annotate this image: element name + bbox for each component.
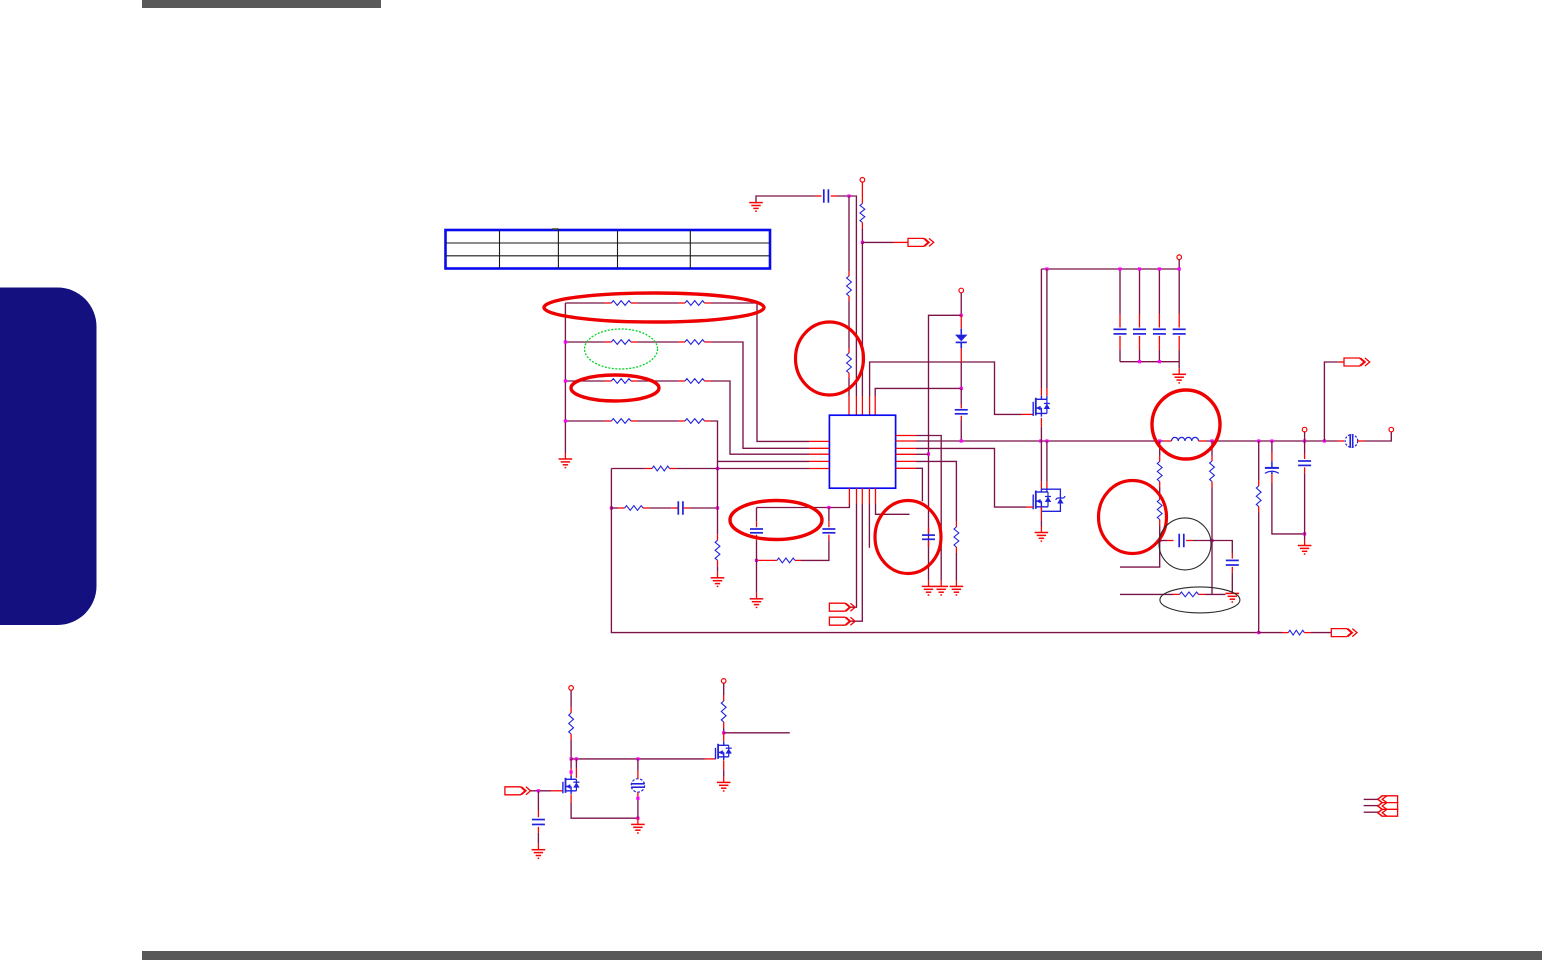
node junction bbox=[847, 194, 850, 197]
wire red stub bbox=[564, 453, 566, 459]
transistor M3 bbox=[716, 742, 732, 760]
wire R28 down bbox=[723, 722, 725, 733]
diode D1 bbox=[955, 329, 968, 349]
wire IC pin R1 to gnd bbox=[896, 436, 942, 587]
resistor R19 bbox=[625, 506, 643, 511]
highlight ellipse red E1 bbox=[544, 293, 764, 322]
wire from T1 bbox=[861, 182, 863, 203]
wire cap col2 lower bbox=[801, 535, 829, 561]
wire cap column 3 bbox=[1158, 269, 1160, 328]
resistor R20 bbox=[715, 540, 720, 560]
node junction bbox=[1045, 439, 1048, 442]
wire damp row left bbox=[1120, 593, 1180, 595]
wire row3 to IC bbox=[705, 381, 830, 454]
terminal T3 bbox=[1177, 255, 1182, 260]
wire red stub bbox=[831, 195, 837, 197]
wire M2 diode drop bbox=[1046, 441, 1048, 482]
wire cap column lower bbox=[1158, 336, 1160, 362]
inductor L1 bbox=[1172, 437, 1199, 441]
port P3 bbox=[1331, 629, 1357, 637]
node junction bbox=[716, 506, 719, 509]
wire to port bbox=[862, 241, 908, 243]
wire row2 mid bbox=[631, 341, 685, 343]
node junction bbox=[1158, 439, 1161, 442]
node junction bbox=[861, 241, 864, 244]
ground GND10 bbox=[934, 586, 948, 595]
wire bus vertical bbox=[564, 303, 566, 453]
wire junction down bbox=[1211, 541, 1213, 595]
wire row3 left bbox=[565, 380, 611, 382]
wire cap column 4 bbox=[1178, 269, 1180, 328]
wire port stub bbox=[1364, 798, 1378, 800]
revision table bbox=[446, 229, 771, 269]
wire I1 top bbox=[637, 759, 639, 779]
wire to left riser bbox=[929, 315, 962, 580]
ground GND12 bbox=[1172, 374, 1186, 383]
wire C17 upper bbox=[1271, 441, 1273, 462]
capacitor C1 bbox=[824, 189, 829, 203]
node junction bbox=[564, 340, 567, 343]
ground GND8 bbox=[1035, 533, 1049, 542]
wire L1 right down bbox=[1211, 441, 1213, 461]
wire M1 source to rail bbox=[1040, 418, 1042, 441]
highlight circle red E8 bbox=[1099, 481, 1167, 554]
terminal T7 bbox=[721, 679, 726, 684]
wire RC right bbox=[684, 507, 718, 509]
wire cap col1 lower bbox=[756, 535, 758, 561]
wire D1 to junction bbox=[960, 348, 962, 388]
wire cap col1 bbox=[756, 508, 758, 528]
filter FB1 bbox=[1345, 434, 1358, 448]
node junction bbox=[564, 379, 567, 382]
left navy side tab bbox=[0, 288, 97, 626]
resistor R10 bbox=[611, 301, 631, 306]
port P2 bbox=[1344, 358, 1370, 366]
port P1 output bbox=[908, 238, 934, 246]
bottom footer bar bbox=[142, 951, 1542, 960]
terminal T4 bbox=[1302, 427, 1307, 432]
resistor R16 bbox=[611, 419, 631, 424]
resistor R25 bbox=[1180, 592, 1199, 597]
wire M4 diode lead bbox=[575, 759, 577, 778]
wire I1 bottom bbox=[637, 792, 639, 818]
wire M3 drain branch bbox=[724, 732, 790, 734]
capacitor C10 bbox=[1114, 329, 1127, 334]
resistor R15 bbox=[685, 379, 705, 384]
node junction bbox=[755, 559, 758, 562]
wire row5 to IC bbox=[670, 468, 830, 470]
terminal T1 bbox=[860, 178, 865, 183]
wire IC top pin2 riser bbox=[855, 196, 858, 415]
capacitor C9 bbox=[678, 501, 683, 515]
resistor R4 bbox=[954, 527, 959, 547]
wire row1 mid bbox=[631, 302, 685, 304]
wire red stub bbox=[1046, 388, 1048, 396]
terminal T2 bbox=[959, 288, 964, 293]
resistor R13 bbox=[685, 340, 705, 345]
wire bus lower bbox=[1120, 361, 1179, 363]
highlight circle red E4 bbox=[796, 322, 864, 395]
wire C18 lower bbox=[1304, 467, 1306, 545]
wire IC pin B1 feedback bbox=[757, 488, 850, 507]
wire to port P2 bbox=[1324, 362, 1344, 441]
wire IC pin R3 to M2 gate bbox=[896, 448, 1034, 507]
node junction bbox=[1158, 360, 1161, 363]
node junction bbox=[575, 757, 578, 760]
node junction bbox=[537, 789, 540, 792]
wire IC top pin4 to M1 gate bbox=[870, 362, 1034, 415]
wire row5 left bbox=[611, 468, 652, 470]
wire to R21 bbox=[1259, 632, 1289, 634]
node junction bbox=[927, 452, 930, 455]
node junction bbox=[1210, 539, 1213, 542]
wire R26 upper bbox=[1258, 441, 1260, 486]
wire red stub bbox=[1231, 553, 1233, 559]
wire M3 source bbox=[723, 760, 725, 782]
resistor R21 bbox=[1288, 630, 1304, 635]
source I1 bbox=[631, 779, 644, 792]
node junction bbox=[1045, 267, 1048, 270]
wire between bbox=[1159, 482, 1161, 500]
wire to junction bbox=[837, 195, 856, 197]
wire to junction bbox=[1159, 520, 1161, 541]
node junction bbox=[716, 467, 719, 470]
port P6 bbox=[505, 787, 531, 795]
wire cap col2 bbox=[828, 508, 830, 528]
wire snub right bbox=[1186, 540, 1212, 542]
ground GND9 bbox=[922, 586, 936, 595]
wire L1 left down bbox=[1159, 441, 1161, 462]
wire red stub bbox=[1040, 482, 1042, 489]
wire into IC pin bbox=[848, 373, 850, 415]
capacitor C7 bbox=[750, 529, 763, 533]
wire R26 lower bbox=[1258, 507, 1260, 633]
capacitor C19 bbox=[532, 820, 545, 825]
wire to GND5 bbox=[537, 827, 539, 850]
wire to junction bbox=[1211, 482, 1213, 541]
wire red stub bbox=[1164, 440, 1172, 442]
node junction bbox=[960, 314, 963, 317]
resistor R12 bbox=[611, 340, 631, 345]
resistor R27 bbox=[569, 713, 574, 734]
node junction bbox=[960, 387, 963, 390]
capacitor C15 bbox=[1179, 534, 1184, 548]
resistor R28 bbox=[721, 701, 726, 722]
wire red stub bbox=[928, 541, 930, 547]
ground GND7 bbox=[717, 782, 731, 791]
transistor M2 bbox=[1033, 489, 1065, 512]
wire to GND3 bbox=[717, 560, 719, 578]
ground GND5 bbox=[532, 850, 546, 859]
node junction bbox=[1178, 267, 1181, 270]
highlight ellipse green E2 bbox=[585, 329, 658, 369]
wire red stub bbox=[928, 580, 930, 586]
wire red stub bbox=[928, 528, 930, 534]
ground GND1 bbox=[749, 203, 763, 212]
wire row3 mid bbox=[631, 380, 685, 382]
wire L-branch bbox=[1120, 541, 1160, 568]
wire T4 down bbox=[1304, 432, 1306, 441]
highlight ellipse red E5 bbox=[730, 501, 822, 540]
wire IC top pin3 riser bbox=[861, 242, 863, 415]
transistor M4 bbox=[563, 776, 580, 794]
wire C18 upper bbox=[1304, 441, 1306, 459]
wire main rail right bbox=[1206, 440, 1344, 442]
resistor R22 bbox=[1157, 462, 1162, 482]
wire main rail left bbox=[896, 440, 1164, 442]
wire red stub bbox=[960, 315, 962, 328]
wire red stub bbox=[1040, 388, 1042, 396]
resistor R24 bbox=[1210, 461, 1215, 482]
wire row4 left bbox=[565, 420, 611, 422]
wire port stub bbox=[1364, 811, 1378, 813]
wire RC mid bbox=[643, 507, 678, 509]
highlight circle red E6 bbox=[875, 501, 941, 574]
resistor R3 bbox=[860, 204, 865, 223]
capacitor C8 bbox=[822, 529, 835, 533]
wire M1 diode riser bbox=[1046, 269, 1048, 388]
wire T2 down bbox=[960, 293, 962, 315]
wire cap column lower bbox=[1178, 336, 1180, 362]
wire red stub bbox=[1046, 482, 1048, 489]
wire IC top pin5 to diode node bbox=[875, 388, 961, 415]
IC U1 bbox=[829, 415, 895, 488]
wire P6 to gate bbox=[531, 790, 563, 792]
wire IC pin B5 stub bbox=[876, 488, 910, 514]
highlight ellipse red E3 bbox=[571, 375, 659, 401]
wire IC pin R6 stub bbox=[896, 468, 923, 501]
wire M1 drain riser bbox=[1040, 269, 1042, 388]
wire red stub bbox=[795, 559, 801, 561]
highlight circle red E7 bbox=[1152, 390, 1220, 459]
wire row2 to IC bbox=[705, 342, 830, 448]
node junction bbox=[564, 419, 567, 422]
node junction bbox=[1303, 532, 1306, 535]
wire between R1 R2 bbox=[848, 296, 850, 353]
wire R3 to junction bbox=[861, 223, 863, 243]
wire row4 to IC bbox=[705, 421, 830, 461]
wire IC pin B3 bbox=[850, 488, 862, 621]
port P4 bbox=[829, 603, 855, 611]
wire to port P3 bbox=[1304, 632, 1331, 634]
capacitor C5 bbox=[955, 410, 968, 414]
node junction bbox=[1118, 267, 1121, 270]
wire red stub bbox=[815, 195, 822, 197]
wire to C5 bbox=[960, 388, 962, 408]
wire M4 drain bbox=[570, 759, 572, 778]
node junction bbox=[570, 771, 573, 774]
node junction bbox=[1158, 267, 1161, 270]
node junction bbox=[610, 506, 613, 509]
wire row1 to IC bbox=[705, 303, 830, 441]
capacitor C16 bbox=[1226, 560, 1239, 565]
node junction bbox=[1257, 439, 1260, 442]
wire cap column lower bbox=[1119, 336, 1121, 362]
port P5 bbox=[829, 617, 855, 625]
wire M4 source bbox=[571, 794, 638, 818]
terminal T6 bbox=[569, 686, 574, 691]
wire red stub bbox=[637, 818, 639, 824]
wire IC pin B4 stub bbox=[868, 488, 870, 548]
wire cap drop bbox=[537, 791, 539, 817]
wire left frame bbox=[611, 469, 1258, 633]
terminal T5 bbox=[1389, 427, 1394, 432]
node junction bbox=[1257, 631, 1260, 634]
transistor M1 bbox=[1033, 396, 1050, 417]
highlight ellipse black E10 bbox=[1160, 587, 1240, 613]
port P7 triple bbox=[1378, 796, 1398, 816]
node junction bbox=[827, 506, 830, 509]
wire row1 left bbox=[565, 302, 611, 304]
ground GND13 bbox=[1298, 546, 1312, 555]
node junction bbox=[1270, 439, 1273, 442]
resistor R11 bbox=[685, 301, 705, 306]
capacitor C11 bbox=[1133, 329, 1146, 334]
wire red stub bbox=[1199, 440, 1207, 442]
wire snub left bbox=[1160, 540, 1174, 542]
node junction bbox=[636, 797, 639, 800]
ground GND6 bbox=[631, 824, 645, 833]
node junction bbox=[636, 817, 639, 820]
node junction bbox=[1039, 439, 1042, 442]
wire RC left bbox=[611, 507, 624, 509]
capacitor C12 bbox=[1153, 329, 1166, 334]
top header bar bbox=[142, 0, 381, 8]
node junction bbox=[570, 757, 573, 760]
wire port stub bbox=[1364, 805, 1378, 807]
node junction bbox=[1138, 267, 1141, 270]
wire row4 mid bbox=[631, 420, 685, 422]
node junction bbox=[960, 439, 963, 442]
resistor R14 bbox=[611, 379, 631, 384]
ground GND14 bbox=[1226, 593, 1240, 602]
wire T3 down bbox=[1178, 260, 1180, 269]
wire damp row right bbox=[1199, 593, 1226, 595]
wire IC pin R5 bbox=[896, 461, 957, 527]
wire M2 source bbox=[1040, 507, 1042, 533]
node junction bbox=[1138, 360, 1141, 363]
node junction bbox=[1158, 539, 1161, 542]
wire C5 to main rail bbox=[960, 416, 962, 441]
ground GND2 bbox=[559, 459, 573, 468]
wire M2 drain drop bbox=[1040, 441, 1042, 482]
wire gate row bbox=[571, 758, 716, 760]
ground GND11 bbox=[950, 586, 964, 595]
node junction bbox=[722, 731, 725, 734]
capacitor C18 bbox=[1298, 461, 1311, 465]
wire to GND4 bbox=[756, 560, 758, 598]
wire R4 to gnd bbox=[955, 547, 957, 586]
resistor R2 bbox=[847, 353, 852, 373]
resistor R23 bbox=[1157, 500, 1162, 520]
wire IC top pin1 riser bbox=[848, 196, 850, 276]
wire cap column 1 bbox=[1119, 269, 1121, 328]
node junction bbox=[636, 757, 639, 760]
resistor R1 bbox=[847, 276, 852, 296]
wire cap column lower bbox=[1139, 336, 1141, 362]
resistor R17 bbox=[685, 419, 705, 424]
resistor R18 bbox=[652, 466, 670, 471]
wire cap column 2 bbox=[1139, 269, 1141, 328]
node junction bbox=[1323, 439, 1326, 442]
node junction bbox=[1210, 439, 1213, 442]
node junction bbox=[1303, 439, 1306, 442]
wire branch right bbox=[1212, 541, 1232, 554]
wire VIN bus bbox=[1041, 268, 1179, 270]
wire red stub bbox=[758, 559, 777, 561]
wire IC pin R4 bbox=[896, 453, 929, 455]
ground GND4 bbox=[750, 599, 764, 608]
wire T6 down bbox=[570, 690, 572, 713]
capacitor C17 polarized bbox=[1265, 462, 1279, 475]
capacitor C6 bbox=[922, 535, 935, 539]
wire IC pin B2 bbox=[850, 488, 857, 607]
wire row2 left bbox=[565, 341, 611, 343]
wire T7 down bbox=[723, 683, 725, 701]
wire to GND12 bbox=[1178, 362, 1180, 375]
highlight circle black E9 bbox=[1159, 518, 1211, 570]
wire to T5 bbox=[1357, 432, 1391, 441]
ground GND3 bbox=[711, 578, 725, 587]
wire red stub bbox=[723, 733, 725, 742]
wire to GND14 bbox=[1231, 567, 1233, 594]
wire comp riser bbox=[717, 461, 719, 540]
wire top cap net bbox=[756, 196, 815, 203]
resistor R5 bbox=[777, 558, 795, 563]
wire R27 down bbox=[570, 734, 572, 759]
resistor R26 bbox=[1256, 486, 1261, 507]
capacitor C13 bbox=[1173, 329, 1186, 334]
wire C17 lower bbox=[1272, 474, 1305, 534]
